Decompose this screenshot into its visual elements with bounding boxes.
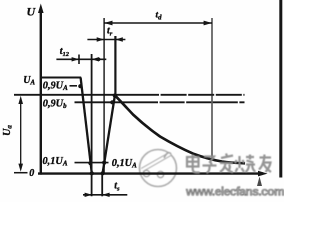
projection vertical x=115.4 (thick, to peak) (114, 36, 116, 96)
0.1 level line (75, 162, 109, 164)
baseline left extension (14, 172, 28, 174)
waveform: exponential decay (115, 95, 245, 163)
dot rise edge at baseline (101, 171, 105, 175)
t_12 left arrow (outside) (72, 57, 79, 61)
t_s left arrow (outside) (85, 193, 92, 197)
t_d left arrow (104, 21, 112, 26)
t_s right arrow (outside) (102, 193, 109, 197)
svg-text:tr: tr (107, 26, 113, 38)
watermark chinese text 电子发烧友 (drawn as gray strokes) (187, 154, 271, 174)
t_12 trailing dot (97, 58, 101, 62)
t_r right arrow (outside) (115, 37, 122, 41)
U_a bottom arrow (18, 164, 23, 172)
U_A level line (42, 77, 82, 79)
t axis baseline (38, 172, 263, 174)
t_12 dimension line (56, 58, 106, 60)
svg-text:0,1UA: 0,1UA (112, 158, 137, 170)
dot 0.1UA on falling edge (88, 161, 92, 165)
t_d dimension line (104, 22, 212, 24)
svg-text:t12: t12 (60, 46, 70, 58)
svg-text:UA: UA (23, 75, 35, 87)
svg-text:Ua: Ua (2, 125, 14, 136)
leader dash to 0.9UA dot (70, 85, 78, 87)
char 电 (187, 155, 200, 173)
projection vertical x=104.1 (thin, top to baseline) (103, 18, 105, 174)
U axis arrowhead (38, 4, 44, 14)
waveform: rise edge (103, 95, 115, 173)
t_s dimension line (83, 194, 127, 196)
char 烧 (235, 155, 256, 173)
t_12 left tick (78, 55, 80, 65)
t axis arrowhead (258, 171, 268, 177)
t_r dimension line (87, 39, 125, 41)
svg-text:td: td (156, 10, 163, 21)
svg-text:0,9UA: 0,9UA (43, 80, 68, 92)
watermark stamp circle (140, 150, 177, 187)
projection vertical at x=91.6 (0.1UA fall) (91, 54, 93, 196)
svg-text:0,9Ub: 0,9Ub (43, 99, 67, 111)
svg-text:0: 0 (29, 168, 34, 179)
projection vertical x=212 (t_d right) (211, 18, 213, 158)
U_b level line (long, to x=244) (14, 94, 133, 96)
U axis (vertical) (40, 8, 42, 175)
svg-text:U: U (27, 5, 37, 19)
svg-text:ts: ts (114, 180, 120, 192)
projection vertical below baseline x=102.2 (101, 175, 103, 197)
t_d right arrow (204, 21, 212, 26)
right page border (279, 0, 282, 178)
U_a top arrow (18, 96, 23, 104)
dot 0.1 on rising edge (102, 161, 106, 165)
dot 0.9UA on falling edge (78, 84, 82, 88)
char 子 (203, 157, 217, 174)
svg-text:0,1UA: 0,1UA (43, 156, 68, 168)
t_12 right arrow (outside) (92, 57, 99, 61)
svg-text:www.elecfans.com: www.elecfans.com (185, 185, 284, 199)
char 发 (220, 154, 233, 173)
0.9U_b level line (75, 101, 134, 103)
dot at 0.9Ub crossing on rise edge (110, 100, 114, 104)
watermark dark arrow (257, 177, 262, 187)
waveform: fall edge (81, 78, 92, 174)
dot fall edge at baseline (90, 171, 94, 175)
U_a dimension vertical (20, 99, 22, 169)
t_r left arrow (outside) (97, 37, 104, 41)
dot at waveform peak (113, 93, 117, 97)
char 友 (259, 155, 271, 173)
